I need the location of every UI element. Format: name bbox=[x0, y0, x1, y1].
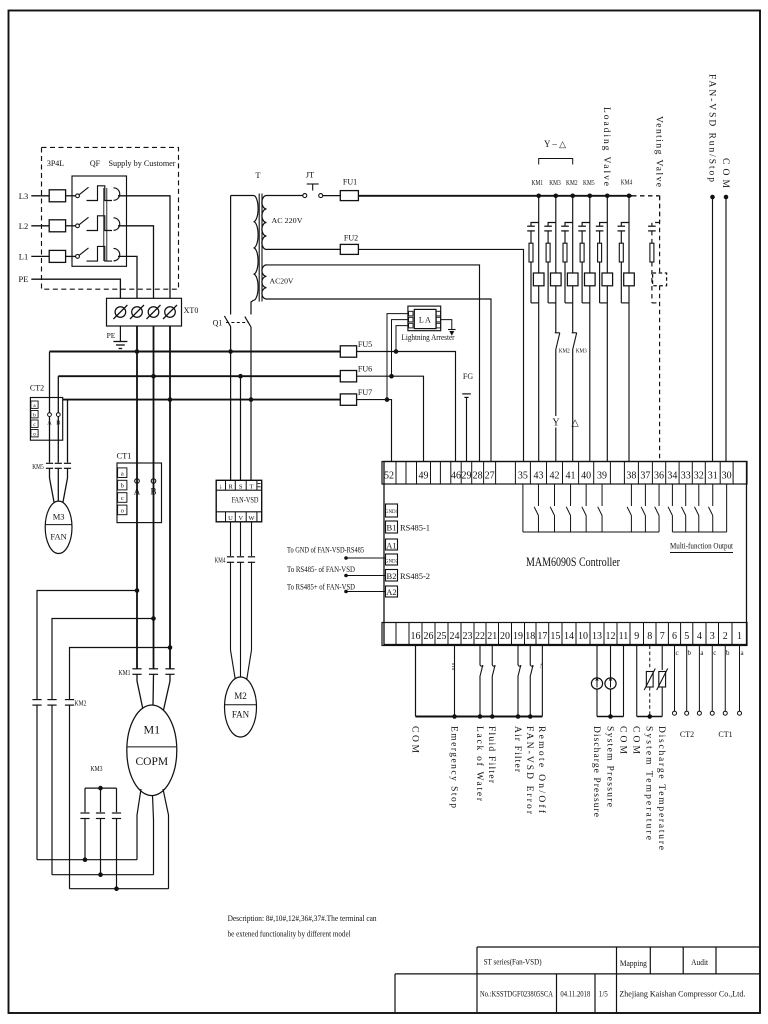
svg-text:KM1: KM1 bbox=[119, 669, 131, 677]
contactor coil bbox=[653, 273, 667, 286]
relay contact to terminal 41 bbox=[570, 484, 572, 506]
wire cap to resistor bbox=[599, 231, 601, 243]
wire cap to resistor bbox=[547, 231, 549, 243]
svg-text:L1: L1 bbox=[19, 251, 28, 261]
QF pole 1 magnetic arc bbox=[114, 188, 120, 201]
CT1 secondary terminal c bbox=[118, 493, 127, 503]
svg-text:49: 49 bbox=[419, 471, 429, 482]
LA earth symbol bbox=[448, 329, 456, 331]
wire to GND2 bbox=[346, 557, 386, 559]
supply enclosure dashed box bbox=[42, 147, 179, 289]
svg-text:A2: A2 bbox=[386, 587, 396, 597]
wire terminal 16 COM bbox=[415, 646, 417, 717]
digital input common bus bbox=[416, 716, 543, 718]
svg-text:System Pressure: System Pressure bbox=[604, 726, 614, 807]
svg-text:V: V bbox=[238, 515, 243, 522]
svg-text:B1: B1 bbox=[387, 523, 397, 533]
svg-text:11: 11 bbox=[619, 631, 629, 642]
svg-text:RS485-2: RS485-2 bbox=[400, 572, 430, 581]
interlock contact KM2 (on 42) bbox=[555, 332, 560, 334]
wire XT0 to PE earth bbox=[119, 326, 121, 342]
pushbutton JT contact circles bbox=[303, 194, 307, 198]
svg-text:KM2: KM2 bbox=[566, 179, 578, 187]
svg-text:KM5: KM5 bbox=[32, 463, 44, 471]
wire branch drop bbox=[572, 196, 574, 273]
suppressor capacitor bbox=[596, 225, 604, 227]
fuse/terminal block on L1 bbox=[49, 250, 65, 262]
svg-text:COM: COM bbox=[409, 726, 419, 754]
wire cap to resistor bbox=[581, 231, 583, 243]
junction S bus2 bbox=[238, 374, 243, 379]
current transformer CT1 body bbox=[117, 463, 162, 523]
svg-text:c: c bbox=[675, 649, 678, 657]
pressure sensor on 12 bbox=[610, 646, 612, 679]
multi-function contact 31 bbox=[712, 484, 714, 506]
svg-text:KM4: KM4 bbox=[215, 557, 226, 565]
wire COM to terminal 30 bbox=[725, 197, 727, 462]
emergency stop device on 24 bbox=[454, 646, 456, 717]
wire AC20V a to terminal 28 bbox=[267, 265, 480, 462]
svg-text:CT1: CT1 bbox=[718, 730, 732, 739]
svg-text:Discharge Temperature: Discharge Temperature bbox=[656, 726, 666, 850]
contactor KM4 contact c bbox=[248, 556, 255, 558]
FG ground symbol bbox=[462, 393, 471, 395]
title block lines bbox=[477, 946, 760, 948]
svg-text:B2: B2 bbox=[387, 571, 397, 581]
wire L3 in bbox=[31, 195, 49, 197]
svg-text:Supply by Customer: Supply by Customer bbox=[109, 159, 176, 168]
multi-function common 30 wire bbox=[726, 484, 728, 532]
junction LA bus1 bbox=[394, 349, 399, 354]
CT2 secondary terminal 2 bbox=[31, 411, 38, 418]
FAN-VSD terminal rows bbox=[216, 489, 262, 491]
svg-text:18: 18 bbox=[525, 631, 535, 642]
QF pole 1 hinge bbox=[76, 194, 80, 198]
controller bottom terminal row bbox=[382, 623, 747, 646]
svg-text:b: b bbox=[33, 412, 36, 418]
svg-text:AC 220V: AC 220V bbox=[272, 216, 304, 225]
svg-text:Q1: Q1 bbox=[213, 319, 223, 328]
wire phase bus 1 right segment to terminal 46 bbox=[357, 352, 456, 462]
svg-text:CT2: CT2 bbox=[30, 384, 44, 393]
wire L1 in bbox=[31, 255, 49, 257]
svg-text:52: 52 bbox=[384, 471, 394, 482]
branch junction bbox=[536, 194, 541, 199]
svg-text:↓: ↓ bbox=[219, 482, 223, 490]
wire L2 to QF bbox=[66, 225, 76, 227]
RS485 port B2 bbox=[386, 570, 398, 582]
wire phase 1 XT0 to KM1 bbox=[136, 326, 138, 669]
suppressor resistor bbox=[529, 243, 533, 262]
svg-text:31: 31 bbox=[708, 471, 718, 482]
temperature common bus 9-7 bbox=[637, 716, 662, 718]
wire KM3 a bbox=[84, 788, 86, 812]
controller top terminal row bbox=[382, 462, 747, 485]
contactor KM5 contact a bbox=[46, 462, 53, 464]
suppressor resistor bbox=[650, 243, 654, 262]
svg-text:W: W bbox=[248, 515, 255, 522]
svg-text:L2: L2 bbox=[19, 221, 28, 231]
wire JT to FU1 bbox=[323, 195, 341, 197]
wire resistor down bbox=[547, 262, 549, 303]
wire resistor down bbox=[651, 262, 653, 303]
motor M1 compressor bbox=[127, 705, 177, 796]
svg-text:ST series(Fan-VSD): ST series(Fan-VSD) bbox=[484, 957, 542, 967]
branch junction bbox=[605, 194, 610, 199]
wire coil to terminal bbox=[606, 286, 608, 462]
svg-text:30: 30 bbox=[722, 471, 732, 482]
contactor coil bbox=[585, 273, 596, 286]
svg-text:MAM6090S Controller: MAM6090S Controller bbox=[526, 555, 621, 569]
relay contact to terminal 39 bbox=[601, 484, 603, 506]
wire branch drop bbox=[628, 196, 630, 273]
wire branch drop bbox=[659, 196, 661, 273]
wire KM2 tap b bbox=[52, 619, 154, 700]
contactor KM1 contact c bbox=[165, 668, 174, 670]
svg-text:A1: A1 bbox=[386, 541, 396, 551]
contactor KM2 contact b bbox=[47, 699, 56, 701]
transformer T core bbox=[258, 194, 260, 302]
RC suppressor elbow bbox=[600, 223, 608, 226]
RC suppressor elbow bbox=[582, 223, 590, 226]
XT0 terminal 2 symbol bbox=[132, 307, 143, 318]
CT2 sensing point B bbox=[56, 413, 60, 417]
lightning arrester LA outer body bbox=[408, 306, 441, 331]
CT2 sensing point A bbox=[48, 413, 52, 417]
svg-text:PE: PE bbox=[19, 274, 29, 284]
control bus from FU1 bbox=[358, 195, 632, 197]
LA right terminal 3 bbox=[436, 323, 440, 328]
svg-text:KM3: KM3 bbox=[576, 348, 587, 355]
wire KM2 tap a bbox=[37, 591, 137, 700]
wire T primary bottom to Q1 bbox=[251, 300, 254, 314]
wire KM5 to M3 leads bbox=[49, 468, 51, 478]
suppressor resistor bbox=[619, 243, 623, 262]
wire resistor down bbox=[530, 262, 532, 303]
wire LA t1 to bus3 bbox=[387, 314, 408, 400]
RC suppressor elbow bbox=[565, 223, 573, 226]
wire KM2 tap c bbox=[70, 648, 171, 700]
fuse FU1 bbox=[340, 191, 358, 201]
svg-text:o: o bbox=[33, 431, 36, 437]
CT2 secondary terminal 4 bbox=[31, 430, 38, 437]
pressure sensor on 13 bbox=[596, 646, 598, 679]
svg-text:43: 43 bbox=[533, 471, 543, 482]
RC suppressor elbow bbox=[531, 223, 539, 226]
svg-text:JT: JT bbox=[306, 170, 315, 180]
svg-text:42: 42 bbox=[550, 471, 560, 482]
wire PE in to XT0 bbox=[31, 279, 120, 298]
suppressor rejoin bbox=[621, 302, 629, 304]
svg-text:20: 20 bbox=[500, 631, 510, 642]
wire phase 3 XT0 to KM1 bbox=[169, 326, 171, 669]
wire M1 bottom lead a bbox=[137, 789, 141, 860]
svg-text:10: 10 bbox=[578, 631, 588, 642]
contactor KM3 contact c bbox=[112, 812, 121, 814]
svg-text:29: 29 bbox=[461, 471, 471, 482]
wire branch drop bbox=[555, 196, 557, 273]
LA right terminal 2 bbox=[436, 317, 440, 322]
svg-text:Y – △: Y – △ bbox=[544, 139, 566, 149]
svg-text:Audit: Audit bbox=[691, 957, 709, 967]
svg-text:KM4: KM4 bbox=[621, 179, 633, 187]
wire phase 2 XT0 to KM1 bbox=[153, 326, 155, 669]
transformer secondary AC20V winding bbox=[262, 265, 267, 299]
analog common bus 13-11 bbox=[597, 716, 624, 718]
junction phase2 KM2 tap bbox=[151, 616, 156, 621]
contactor KM5 contact b bbox=[55, 462, 62, 464]
switch FAN-VSD error on 18 bbox=[529, 646, 531, 664]
svg-text:Description: 8#,10#,12#,36#,37: Description: 8#,10#,12#,36#,37#.The term… bbox=[228, 913, 378, 923]
suppressor resistor bbox=[598, 243, 602, 262]
svg-text:15: 15 bbox=[550, 631, 560, 642]
motor M3 fan bbox=[45, 501, 72, 553]
junction KM3 a bbox=[83, 857, 88, 862]
wire KM3 b to winding end bbox=[100, 819, 102, 875]
wire AC220V live to JT bbox=[267, 195, 303, 197]
wire cap to resistor bbox=[564, 231, 566, 243]
svg-text:8T8: 8T8 bbox=[451, 663, 456, 671]
branch junction bbox=[554, 194, 559, 199]
svg-text:6: 6 bbox=[672, 631, 677, 642]
suppressor capacitor bbox=[578, 225, 586, 227]
relay contact to terminal 36 bbox=[658, 484, 660, 506]
svg-text:PE: PE bbox=[107, 331, 116, 340]
svg-text:4: 4 bbox=[697, 631, 702, 642]
svg-text:To RS485- of FAN-VSD: To RS485- of FAN-VSD bbox=[287, 565, 355, 574]
svg-text:FAN-VSD Run/Stop: FAN-VSD Run/Stop bbox=[706, 74, 716, 182]
svg-text:FU5: FU5 bbox=[358, 340, 372, 349]
wire resistor down bbox=[564, 262, 566, 303]
QF pole 1 overload element bbox=[87, 186, 113, 201]
svg-text:1/5: 1/5 bbox=[599, 989, 608, 999]
svg-text:14: 14 bbox=[564, 631, 574, 642]
wire bus2 drop to CT2 B bbox=[57, 376, 59, 414]
QF pole 3 magnetic arc bbox=[114, 248, 120, 261]
wire M1 winding end c bbox=[70, 888, 169, 890]
svg-text:KM3: KM3 bbox=[549, 179, 561, 187]
wire LA t3 to bus1 bbox=[396, 326, 408, 352]
pushbutton JT actuator bbox=[312, 184, 314, 191]
CT lead terminal 3 (c) bbox=[711, 646, 713, 712]
svg-text:25: 25 bbox=[437, 631, 447, 642]
CT lead terminal 6 (c) bbox=[674, 646, 676, 712]
svg-text:5: 5 bbox=[684, 631, 689, 642]
svg-text:b: b bbox=[121, 483, 124, 490]
svg-text:GND1: GND1 bbox=[385, 510, 399, 515]
suppressor rejoin bbox=[600, 302, 608, 304]
svg-text:32: 32 bbox=[694, 471, 704, 482]
wire phase bus 3 left segment bbox=[63, 399, 341, 401]
wire U to KM4 bbox=[230, 522, 232, 556]
svg-text:8: 8 bbox=[647, 631, 652, 642]
svg-text:36: 36 bbox=[654, 471, 664, 482]
fuse/terminal block on L3 bbox=[49, 190, 65, 202]
svg-text:Loading Valve: Loading Valve bbox=[601, 107, 611, 186]
CT1 secondary terminal a bbox=[118, 468, 127, 478]
QF trip linkage bars bbox=[103, 188, 105, 261]
wire KM3 c bbox=[116, 788, 118, 812]
fuse/terminal block on L2 bbox=[49, 220, 65, 232]
wire coil to terminal bbox=[538, 286, 540, 462]
wire cap to resistor bbox=[620, 231, 622, 243]
XT0 terminal 4 symbol bbox=[165, 307, 176, 318]
switch fluid filter on 21 bbox=[491, 646, 493, 664]
suppressor rejoin bbox=[582, 302, 590, 304]
relay contact to terminal 42 bbox=[554, 484, 556, 506]
svg-text:Discharge Pressure: Discharge Pressure bbox=[591, 726, 601, 817]
wire terminal 11 COM bbox=[623, 646, 625, 717]
star-point bar KM3 bbox=[85, 787, 117, 789]
junction T bus3 bbox=[249, 397, 254, 402]
svg-text:FU1: FU1 bbox=[343, 178, 357, 187]
contactor KM4 contact b bbox=[237, 556, 244, 558]
wire KM3 b bbox=[100, 788, 102, 812]
suppressor resistor bbox=[563, 243, 567, 262]
contactor coil bbox=[533, 273, 544, 286]
relay output bus bbox=[523, 531, 659, 533]
suppressor rejoin bbox=[531, 302, 539, 304]
ground symbol PE earth bbox=[113, 341, 127, 343]
svg-text:o: o bbox=[121, 508, 124, 515]
wire branch drop bbox=[538, 196, 540, 273]
wire KM4 to M2 leads bbox=[230, 562, 232, 650]
junction Q1 bus1 bbox=[228, 349, 233, 354]
wire coil to terminal bbox=[555, 286, 557, 333]
svg-text:CT1: CT1 bbox=[116, 451, 131, 461]
junction phase1 KM2 tap bbox=[135, 588, 140, 593]
temperature sensor on 7 bbox=[661, 646, 663, 671]
wire phase bus 3 right segment to terminal 52 bbox=[357, 400, 392, 462]
junction bus1-XT0 phase bbox=[135, 349, 140, 354]
svg-text:QF: QF bbox=[90, 159, 101, 168]
svg-text:FU2: FU2 bbox=[344, 234, 358, 243]
wire phase bus 1 left segment bbox=[50, 351, 341, 353]
RS485 port A2 bbox=[386, 586, 398, 597]
svg-text:△: △ bbox=[571, 419, 579, 429]
relay common 35 wire bbox=[522, 484, 524, 532]
svg-text:FAN: FAN bbox=[50, 532, 66, 542]
wire L1 QF to XT0 bbox=[118, 256, 137, 298]
svg-text:KM3: KM3 bbox=[91, 765, 103, 773]
QF pole 2 hinge bbox=[76, 224, 80, 228]
wire phase bus 2 right segment to terminal 49 bbox=[357, 376, 424, 461]
svg-text:T: T bbox=[250, 483, 254, 490]
wire L1 to QF bbox=[66, 255, 76, 257]
controller MAM6090S body bbox=[384, 462, 747, 645]
multi-function contact 32 bbox=[698, 484, 700, 506]
RS485 port A1 bbox=[386, 539, 398, 550]
svg-text:COM: COM bbox=[631, 726, 641, 755]
svg-text:+–: +– bbox=[538, 663, 543, 669]
relay contact to terminal 40 bbox=[585, 484, 587, 506]
FAN-VSD aux mini terminal bbox=[258, 483, 261, 485]
wire FAN-VSD S feed bbox=[240, 376, 242, 480]
motor M2 fan bbox=[225, 677, 257, 737]
wire cap to resistor bbox=[651, 231, 653, 243]
CT lead terminal 4 (a) bbox=[698, 646, 700, 712]
label Y bbox=[551, 416, 562, 428]
wire to B2 bbox=[346, 575, 386, 577]
LA left terminal 1 bbox=[409, 311, 413, 316]
wire bus1 to Q1 bbox=[231, 195, 254, 197]
XT0 terminal 1 symbol bbox=[115, 307, 126, 318]
wire M1 bottom lead b bbox=[153, 795, 154, 875]
svg-text:GND2: GND2 bbox=[385, 560, 399, 565]
wire phase bus 2 left segment bbox=[58, 375, 340, 377]
svg-text:FU6: FU6 bbox=[358, 365, 372, 374]
wire KM2 b down bbox=[51, 705, 53, 875]
contactor KM2 contact a bbox=[32, 699, 41, 701]
wire CT2 A to KM5 bbox=[49, 417, 51, 463]
wire AC20V b to terminal 27 bbox=[267, 299, 492, 462]
svg-text:16: 16 bbox=[411, 631, 421, 642]
CT1 sensing point B bbox=[151, 479, 156, 484]
svg-text:Mapping: Mapping bbox=[620, 958, 648, 968]
svg-text:AC20V: AC20V bbox=[270, 277, 295, 286]
junction KM3 c bbox=[114, 886, 119, 891]
svg-text:Lightning Arrester: Lightning Arrester bbox=[402, 333, 455, 342]
title block row2 dividers bbox=[556, 974, 558, 1013]
wire branch drop bbox=[589, 196, 591, 273]
relay contact to terminal 37 bbox=[644, 484, 646, 506]
contactor KM5 contact c bbox=[64, 462, 71, 464]
CT lead terminal 2 (b) bbox=[724, 646, 726, 712]
svg-text:COPM: COPM bbox=[135, 756, 168, 768]
LA left terminal 2 bbox=[409, 317, 413, 322]
wire FG to terminal 29 bbox=[466, 397, 468, 461]
svg-text:41: 41 bbox=[566, 471, 576, 482]
transformer secondary AC220V winding bbox=[262, 196, 267, 250]
RS485 port GND2 bbox=[386, 554, 398, 565]
wire Q1 pole1 to bus1 / FAN-VSD R bbox=[230, 326, 232, 480]
wire KM2 c down bbox=[69, 705, 71, 889]
svg-text:KM1: KM1 bbox=[532, 179, 544, 187]
RC suppressor elbow bbox=[548, 223, 556, 226]
suppressor capacitor bbox=[618, 225, 626, 227]
svg-text:Zhejiang Kaishan Compressor Co: Zhejiang Kaishan Compressor Co.,Ltd. bbox=[619, 989, 745, 999]
QF pole 2 magnetic arc bbox=[114, 218, 120, 231]
temperature sensor on 8 (dashed optional) bbox=[649, 646, 651, 671]
CT2 secondary terminal 3 bbox=[31, 420, 38, 427]
wire L3 QF to XT0 bbox=[118, 196, 170, 298]
wire T primary top drop bbox=[230, 196, 232, 315]
contactor coil bbox=[551, 273, 562, 286]
title block row1 dividers bbox=[649, 947, 651, 974]
svg-text:To GND of FAN-VSD-RS485: To GND of FAN-VSD-RS485 bbox=[287, 546, 364, 555]
svg-text:37: 37 bbox=[640, 471, 650, 482]
svg-text:COM: COM bbox=[617, 726, 627, 755]
LA right terminal 1 bbox=[436, 311, 440, 316]
suppressor rejoin bbox=[565, 302, 573, 304]
svg-text:13: 13 bbox=[592, 631, 602, 642]
svg-text:17: 17 bbox=[537, 631, 547, 642]
junction bus2-XT0 phase bbox=[151, 374, 156, 379]
svg-text:COM: COM bbox=[720, 158, 730, 189]
svg-text:3: 3 bbox=[710, 631, 715, 642]
wire coil to terminal bbox=[628, 286, 630, 462]
CT1 sensing point A bbox=[135, 479, 140, 484]
suppressor rejoin bbox=[548, 302, 556, 304]
fuse FU2 bbox=[340, 244, 358, 254]
svg-text:19: 19 bbox=[513, 631, 523, 642]
suppressor capacitor bbox=[648, 225, 656, 227]
FAN-VSD drive body bbox=[216, 480, 262, 522]
contactor KM3 contact a bbox=[80, 812, 89, 814]
svg-text:KM2: KM2 bbox=[75, 700, 87, 708]
wire L3 to QF bbox=[66, 195, 76, 197]
relay contact to terminal 43 bbox=[537, 484, 539, 506]
